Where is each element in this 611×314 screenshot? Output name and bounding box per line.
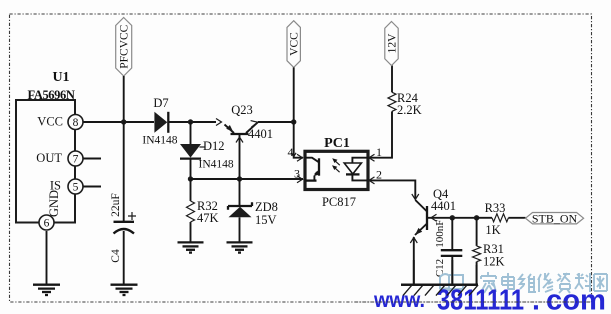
svg-text:com: com — [546, 284, 606, 314]
svg-text:D7: D7 — [153, 96, 168, 110]
watermark book icon — [440, 274, 463, 290]
wire D12 to lower rail — [190, 159, 192, 179]
svg-text:100nF: 100nF — [434, 220, 446, 248]
svg-text:.: . — [532, 284, 540, 314]
svg-text:12K: 12K — [483, 255, 505, 269]
wire U1 pin8 to VCC rail — [84, 121, 155, 123]
wire PFCVCC down to rail — [123, 76, 125, 122]
resistor R24 2.2K — [388, 66, 422, 118]
U1 pin 5 (IS) — [50, 179, 83, 194]
capacitor C4 22uF — [110, 122, 136, 263]
PC1 LED — [344, 158, 368, 181]
wire end arrow into PC1 pin3 — [297, 176, 303, 183]
svg-text:FA5696N: FA5696N — [28, 88, 75, 102]
frame bottom dashes over watermark — [355, 301, 592, 303]
svg-text:STB_ON: STB_ON — [532, 211, 578, 225]
svg-text:PC817: PC817 — [322, 195, 356, 209]
svg-text:3811111: 3811111 — [437, 284, 524, 314]
capacitor C12 100nF — [434, 218, 462, 285]
svg-text:7: 7 — [73, 154, 79, 166]
node junction D12/R32 — [188, 176, 193, 181]
svg-text:12V: 12V — [387, 33, 399, 54]
U1 pin 8 (VCC) — [37, 115, 83, 130]
lower rail wire to PC1 pin3 — [191, 178, 304, 180]
U1 pin 6 (GND) — [39, 190, 61, 230]
net label 12V — [385, 22, 399, 66]
IC U1 FA5696N body — [16, 70, 75, 223]
wire D7 cathode to Q23 — [168, 121, 216, 123]
svg-text:5: 5 — [73, 182, 79, 194]
node junction R31/R33 on base rail — [474, 215, 479, 220]
wire U1 pin6 to ground — [46, 231, 48, 285]
svg-text:15V: 15V — [255, 213, 277, 227]
svg-text:GND: GND — [47, 190, 61, 217]
svg-text:C4: C4 — [110, 249, 122, 263]
node junction ZD8/Q23 base — [237, 176, 242, 181]
net label VCC — [287, 21, 301, 68]
resistor R31 12K — [473, 218, 505, 285]
node junction PFCVCC/C4 on rail — [121, 119, 126, 124]
wire Q4 emitter to earth ground — [413, 237, 415, 285]
svg-text:OUT: OUT — [36, 151, 62, 165]
svg-text:VCC: VCC — [37, 115, 63, 129]
diode D12 IN4148 — [180, 122, 234, 171]
ground below U1 — [33, 285, 60, 295]
wire Q23 collector to VCC line — [258, 121, 294, 123]
wire VCC line down to PC1 pin4 — [294, 122, 303, 158]
resistor R32 47K — [187, 179, 219, 242]
svg-text:D12: D12 — [203, 139, 225, 153]
wire PC1 pin1 to R24 — [368, 111, 392, 157]
svg-text:VCC: VCC — [289, 32, 301, 56]
earth ground (hatched) — [401, 285, 478, 296]
wire VCC label down to rail — [293, 67, 295, 122]
wire end arrow at pin1 — [369, 154, 375, 161]
transistor Q4 4401 — [415, 187, 477, 235]
svg-text:47K: 47K — [197, 211, 219, 225]
wire end arrow into PC1 pin4 — [297, 154, 303, 161]
svg-text:22uF: 22uF — [110, 193, 122, 217]
wire PC1 pin2 to Q4 — [368, 180, 415, 199]
wire end arrow at emitter — [410, 238, 417, 244]
PC1 phototransistor — [305, 158, 319, 181]
svg-text:PFCVCC: PFCVCC — [119, 24, 131, 68]
svg-text:4: 4 — [288, 145, 294, 159]
watermark chinese text — [481, 272, 607, 293]
svg-text:IN4148: IN4148 — [199, 159, 234, 171]
net label PFCVCC — [116, 18, 132, 77]
svg-text:PC1: PC1 — [324, 136, 350, 151]
svg-text:6: 6 — [44, 218, 50, 230]
ground below ZD8 — [227, 242, 253, 252]
U1 pin 7 (OUT) — [36, 151, 83, 166]
transistor Q23 4401 (PNP, emitter left) — [225, 103, 274, 179]
svg-text:8: 8 — [73, 117, 79, 129]
resistor R33 1K — [477, 201, 526, 237]
wire C4 to ground — [123, 231, 125, 285]
node junction C12 on base rail — [450, 215, 455, 220]
svg-text:R33: R33 — [485, 201, 506, 215]
svg-text:U1: U1 — [52, 70, 69, 85]
svg-text:1K: 1K — [485, 223, 500, 237]
wire U1 pin7 stub — [84, 158, 102, 160]
svg-text:4401: 4401 — [248, 127, 273, 141]
wire end arrow into Q23 emitter — [216, 119, 222, 126]
svg-text:2: 2 — [376, 168, 382, 182]
svg-text:2.2K: 2.2K — [397, 103, 422, 117]
watermark URL www.3811111.com — [373, 284, 606, 314]
diode D7 IN4148 — [142, 96, 177, 147]
svg-text:4401: 4401 — [431, 199, 456, 213]
PC1 coupling arrows — [332, 158, 340, 172]
ground below C4 — [111, 285, 138, 295]
optocoupler PC1 PC817 box — [305, 136, 368, 209]
svg-text:Q23: Q23 — [231, 103, 253, 117]
earth ground redrawn over watermark — [401, 260, 478, 296]
svg-text:IN4148: IN4148 — [142, 135, 177, 147]
node junction D12 on rail — [188, 119, 193, 124]
svg-text:ZD8: ZD8 — [255, 200, 278, 214]
wire end arrow at pin2 — [369, 177, 375, 184]
wire end arrow into Q4 collector — [412, 194, 419, 200]
ground below R32 — [178, 242, 204, 252]
wire U1 pin5 stub — [84, 186, 102, 188]
net label STB_ON — [526, 211, 584, 225]
zener diode ZD8 15V — [228, 179, 278, 242]
svg-text:3: 3 — [294, 167, 300, 181]
node junction VCC line / rail — [291, 119, 296, 124]
